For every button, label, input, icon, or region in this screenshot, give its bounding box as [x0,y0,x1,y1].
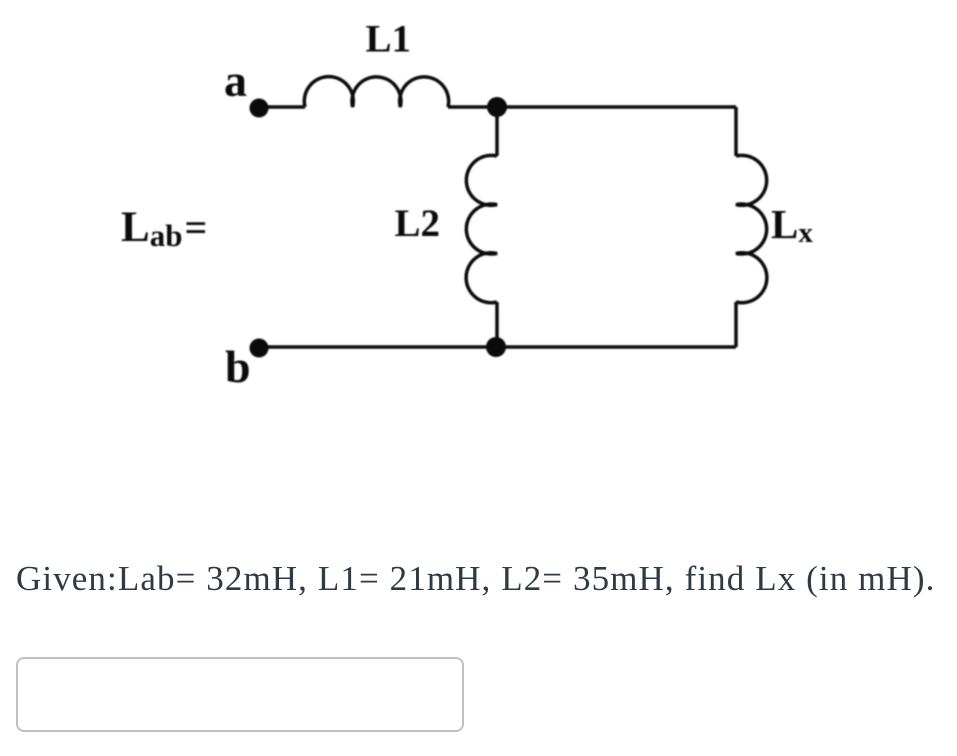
svg-text:Lx: Lx [771,201,813,249]
svg-text:a: a [224,55,247,106]
svg-text:Lab=: Lab= [121,204,207,253]
svg-text:L1: L1 [366,18,412,61]
svg-text:L2: L2 [395,202,441,245]
svg-text:b: b [225,341,251,392]
